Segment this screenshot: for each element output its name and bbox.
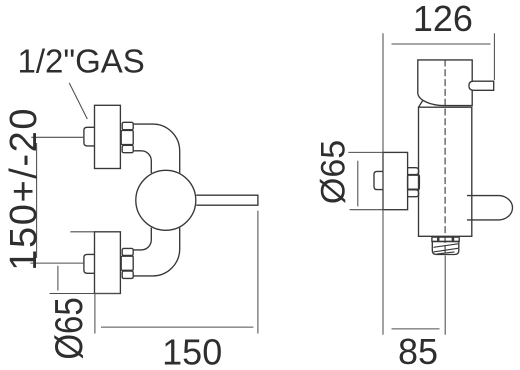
svg-text:85: 85 [398,331,438,370]
svg-text:150+/-20: 150+/-20 [3,107,45,271]
svg-text:150: 150 [162,331,222,370]
svg-text:Ø65: Ø65 [46,297,90,359]
svg-text:Ø65: Ø65 [315,140,353,204]
svg-text:126: 126 [413,0,473,39]
svg-text:1/2"GAS: 1/2"GAS [18,42,145,79]
